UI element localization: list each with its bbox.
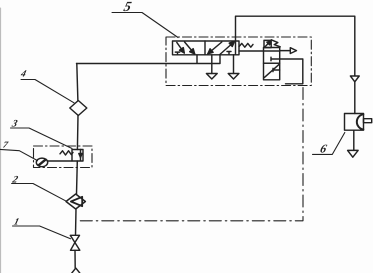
- wire supply horizontal to valve: [77, 55, 221, 64]
- U5 exhaust port right: [233, 55, 235, 74]
- wire left column upper: [77, 64, 78, 101]
- leader line label 4: [21, 80, 74, 103]
- directional valve U5 body: [173, 41, 240, 55]
- pilot valve PV top actuator: [264, 40, 271, 47]
- shutoff valve V1: [70, 235, 79, 242]
- blow nozzle N6: [345, 114, 364, 131]
- wire nozzle drain: [353, 130, 355, 150]
- enclosure box around valve group: [166, 37, 311, 86]
- wire PV feedback loop: [280, 59, 303, 84]
- filter-separator F2: [66, 194, 85, 209]
- leader line label 1: [13, 226, 71, 239]
- left scan-edge line: [0, 8, 2, 273]
- U5 right cell arrows: [208, 42, 222, 54]
- air intake symbol: [71, 268, 81, 273]
- leader line label 2: [12, 184, 67, 202]
- PV output arrow: [280, 50, 291, 52]
- leader line label 5: [112, 13, 178, 38]
- wire filter2 to valve1: [75, 209, 78, 235]
- machine boundary dash-dot line: [78, 88, 304, 221]
- flow arrow on right wire: [350, 76, 359, 82]
- regulator R3: [72, 150, 83, 162]
- U5 left cell arrows: [177, 42, 185, 53]
- wire gauge to regulator: [48, 160, 72, 162]
- U5 return spring: [239, 43, 253, 47]
- leader line label 6: [313, 133, 345, 155]
- filter F4: [70, 101, 87, 116]
- leader line label 7: [0, 149, 38, 160]
- enclosure box around R3 and G7: [34, 146, 93, 168]
- wire valve1 to intake: [74, 250, 76, 268]
- wire U5 to pilot valve: [239, 50, 264, 52]
- wire diamond to regulator: [76, 116, 79, 150]
- U5 exhaust port left: [211, 55, 213, 74]
- gauge G7: [36, 158, 47, 167]
- exhaust arrow under nozzle: [348, 150, 359, 157]
- wire pilot signal top: [236, 16, 355, 113]
- pilot valve PV body: [264, 48, 280, 64]
- wire regulator to filter2: [76, 161, 79, 194]
- leader line label 3: [11, 128, 73, 149]
- spring of R3: [60, 151, 73, 155]
